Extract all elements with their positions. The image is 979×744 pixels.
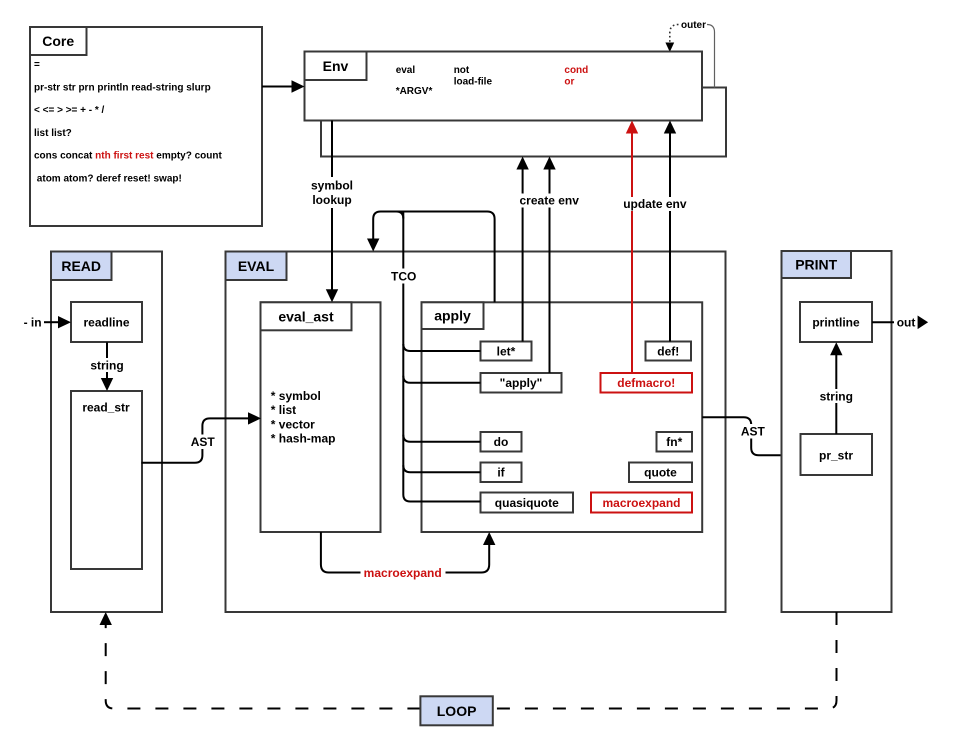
svg-text:outer: outer bbox=[681, 20, 706, 31]
wire LOOP dashed PRINT->LOOP bbox=[493, 612, 837, 709]
box defmacro! bbox=[601, 373, 693, 393]
svg-text:string: string bbox=[820, 390, 853, 404]
box EVAL bbox=[226, 252, 726, 613]
box LOOP bbox=[420, 696, 492, 725]
box if bbox=[481, 463, 522, 483]
svg-text:AST: AST bbox=[741, 424, 766, 438]
box Core bbox=[30, 27, 262, 226]
svg-text:AST: AST bbox=[191, 435, 216, 449]
svg-text:cons concat nth first rest emp: cons concat nth first rest empty? count bbox=[34, 151, 222, 162]
svg-text:apply: apply bbox=[434, 308, 471, 324]
svg-text:string: string bbox=[90, 359, 123, 373]
svg-text:LOOP: LOOP bbox=[437, 703, 477, 719]
box pr_str bbox=[801, 434, 873, 475]
svg-text:out: out bbox=[897, 316, 916, 330]
svg-text:load-file: load-file bbox=[454, 77, 493, 88]
svg-text:defmacro!: defmacro! bbox=[617, 376, 675, 390]
svg-text:let*: let* bbox=[497, 344, 516, 358]
svg-text:if: if bbox=[497, 466, 505, 480]
svg-text:"apply": "apply" bbox=[500, 376, 543, 390]
svg-text:TCO: TCO bbox=[391, 269, 416, 283]
wire update env defmacro!->Env (red) bbox=[626, 121, 638, 374]
box READ bbox=[51, 252, 162, 613]
svg-text:* symbol: * symbol bbox=[271, 389, 321, 403]
svg-text:list list?: list list? bbox=[34, 128, 72, 139]
box do bbox=[481, 432, 522, 452]
svg-text:do: do bbox=[494, 435, 509, 449]
box eval_ast bbox=[261, 302, 381, 532]
svg-text:* hash-map: * hash-map bbox=[271, 432, 336, 446]
wire TCO trunk with branches bbox=[396, 212, 480, 502]
box macroexpand bbox=[591, 493, 692, 513]
wire symbol lookup Env->eval_ast bbox=[309, 121, 356, 303]
svg-text:printline: printline bbox=[812, 315, 860, 329]
svg-text:quote: quote bbox=[644, 466, 677, 480]
box quote bbox=[629, 463, 692, 483]
svg-text:eval: eval bbox=[396, 65, 416, 76]
wire create env let*->Env bbox=[516, 157, 528, 342]
wire AST read_str->eval_ast bbox=[142, 412, 262, 463]
svg-text:macroexpand: macroexpand bbox=[602, 496, 680, 510]
svg-text:quasiquote: quasiquote bbox=[495, 496, 559, 510]
wire TCO loop apply->EVAL bbox=[367, 212, 495, 303]
svg-text:symbol: symbol bbox=[311, 179, 353, 193]
box PRINT bbox=[782, 251, 892, 612]
wire create env "apply"->Env bbox=[519, 157, 581, 374]
svg-text:fn*: fn* bbox=[666, 435, 682, 449]
wire readline->read_str string bbox=[90, 342, 125, 391]
svg-text:not: not bbox=[454, 65, 470, 76]
box quasiquote bbox=[481, 493, 574, 513]
svg-text:pr_str: pr_str bbox=[819, 448, 853, 462]
node outer link line bbox=[665, 20, 714, 88]
box printline bbox=[800, 302, 872, 342]
box def! bbox=[646, 342, 692, 361]
svg-text:atom atom? deref reset! swap!: atom atom? deref reset! swap! bbox=[37, 174, 182, 185]
box Env outer bbox=[321, 88, 726, 157]
label eval_ast contents bbox=[271, 389, 336, 446]
svg-text:read_str: read_str bbox=[82, 401, 130, 415]
box let* bbox=[481, 342, 532, 361]
svg-text:* vector: * vector bbox=[271, 417, 315, 431]
wire in->readline bbox=[24, 316, 71, 330]
svg-text:Core: Core bbox=[42, 33, 74, 49]
wire macroexpand eval_ast->apply (red label) bbox=[321, 532, 496, 580]
svg-text:< <= > >= + - * /: < <= > >= + - * / bbox=[34, 105, 105, 116]
wire pr_str->printline string bbox=[819, 342, 854, 434]
svg-text:macroexpand: macroexpand bbox=[364, 566, 442, 580]
svg-text:def!: def! bbox=[657, 344, 679, 358]
label Env contents bbox=[396, 65, 589, 97]
wire AST apply->pr_str bbox=[702, 417, 800, 461]
box Env bbox=[305, 52, 703, 121]
box "apply" bbox=[481, 373, 562, 393]
wire LOOP dashed LOOP->READ bbox=[100, 612, 421, 709]
svg-text:eval_ast: eval_ast bbox=[278, 308, 334, 324]
box apply bbox=[422, 302, 703, 532]
svg-text:EVAL: EVAL bbox=[238, 258, 275, 274]
svg-text:lookup: lookup bbox=[312, 193, 351, 207]
svg-text:=: = bbox=[34, 60, 40, 71]
wire Core->Env bbox=[262, 80, 305, 92]
svg-text:update env: update env bbox=[623, 197, 687, 211]
svg-text:Env: Env bbox=[323, 58, 349, 74]
svg-text:or: or bbox=[564, 77, 574, 88]
wire update env def!->Env bbox=[621, 121, 689, 342]
svg-text:PRINT: PRINT bbox=[795, 257, 837, 273]
label Core contents bbox=[34, 60, 222, 185]
svg-text:pr-str str prn println read-st: pr-str str prn println read-string slurp bbox=[34, 82, 211, 93]
svg-text:create env: create env bbox=[520, 194, 580, 208]
wire printline->out bbox=[872, 316, 928, 330]
svg-text:readline: readline bbox=[83, 315, 129, 329]
label TCO bbox=[388, 269, 420, 284]
svg-text:* list: * list bbox=[271, 403, 296, 417]
box fn* bbox=[657, 432, 693, 452]
box read_str bbox=[71, 391, 142, 569]
box readline bbox=[71, 302, 142, 342]
svg-text:*ARGV*: *ARGV* bbox=[396, 86, 433, 97]
svg-text:- in: - in bbox=[24, 316, 42, 330]
svg-text:READ: READ bbox=[61, 258, 101, 274]
svg-text:cond: cond bbox=[564, 65, 588, 76]
